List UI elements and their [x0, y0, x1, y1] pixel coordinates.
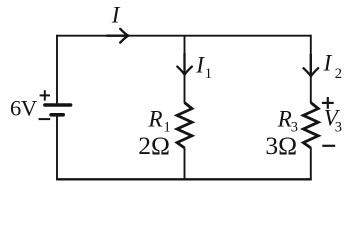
- svg-text:1: 1: [205, 66, 212, 82]
- wire left rail upper (to battery + plate): [56, 35, 58, 104]
- battery polarity +: [40, 90, 50, 100]
- current arrow I2 (right branch, pointing down): [304, 54, 319, 76]
- polarity + of V3: [322, 97, 334, 109]
- current arrow I (top, pointing right): [107, 29, 129, 43]
- resistor R3 zigzag: [303, 103, 318, 148]
- svg-text:I: I: [195, 52, 205, 77]
- wire right rail lower: [310, 148, 312, 181]
- wire middle branch upper: [184, 36, 186, 103]
- svg-text:3Ω: 3Ω: [265, 131, 297, 160]
- svg-text:2Ω: 2Ω: [138, 131, 170, 160]
- wire right rail upper: [310, 35, 312, 103]
- wire middle branch lower: [184, 148, 186, 181]
- wire top rail: [56, 35, 311, 37]
- battery V1 top plate (long, +): [45, 103, 71, 107]
- svg-text:3: 3: [335, 119, 342, 135]
- current arrow I1 (middle branch, pointing down): [177, 53, 192, 75]
- svg-text:R: R: [148, 106, 163, 131]
- polarity - of V3: [322, 145, 335, 147]
- wire left rail lower (from battery - plate): [56, 116, 58, 180]
- svg-text:6V: 6V: [10, 96, 37, 121]
- svg-text:I: I: [323, 50, 333, 75]
- svg-text:R: R: [277, 107, 292, 132]
- resistor R1 zigzag: [177, 103, 192, 148]
- svg-text:2: 2: [335, 66, 342, 82]
- battery polarity -: [39, 118, 51, 120]
- svg-text:I: I: [111, 2, 121, 27]
- battery V1 bottom plate (short, -): [51, 113, 63, 117]
- wire bottom rail: [56, 178, 312, 180]
